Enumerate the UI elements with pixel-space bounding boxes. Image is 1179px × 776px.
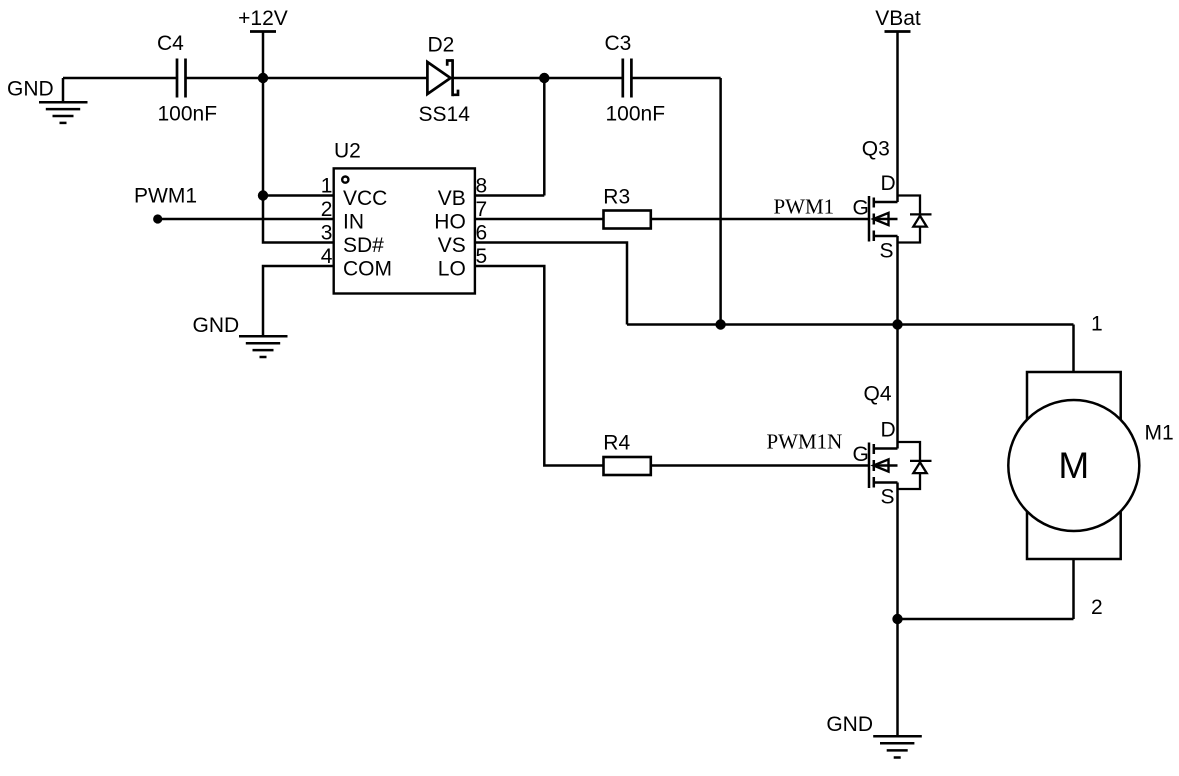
svg-text:VCC: VCC: [343, 187, 387, 210]
svg-text:G: G: [853, 197, 869, 220]
svg-text:PWM1: PWM1: [134, 184, 197, 207]
resistor R4: [604, 457, 651, 475]
wire pin1 VCC: [263, 194, 334, 197]
transistor Q3: [869, 196, 898, 242]
node C3 leg junction: [715, 319, 725, 329]
IC U2 body: [334, 168, 475, 293]
svg-text:4: 4: [321, 245, 333, 268]
capacitor C3: [623, 59, 632, 98]
node D2/C3/VB junction: [539, 73, 549, 83]
wire junction to D2 anode: [263, 77, 427, 80]
svg-text:S: S: [880, 240, 894, 263]
svg-text:VS: VS: [438, 234, 466, 257]
ground (U2 COM): [239, 336, 288, 357]
svg-text:D: D: [881, 172, 896, 195]
wire pin5 LO to R4: [475, 266, 603, 466]
wire switch node row: [627, 323, 1074, 326]
motor M1: [1008, 372, 1139, 559]
wire C3 to corner: [631, 77, 720, 80]
svg-text:GND: GND: [826, 713, 873, 736]
wire VB riser: [543, 78, 546, 196]
svg-text:COM: COM: [343, 258, 392, 281]
svg-text:R4: R4: [603, 431, 630, 454]
svg-text:VB: VB: [438, 187, 466, 210]
svg-text:1: 1: [1091, 313, 1103, 336]
ground (top-left): [39, 78, 88, 123]
svg-text:S: S: [881, 486, 895, 509]
node Q3 source junction: [892, 319, 902, 329]
svg-text:R3: R3: [603, 185, 630, 208]
ground (bottom): [873, 736, 922, 757]
wire pin8 VB: [475, 194, 545, 197]
wire pin6 VS to switch node: [475, 243, 627, 325]
net PWM1 input dot: [153, 214, 162, 223]
svg-text:SD#: SD#: [343, 234, 384, 257]
wire Q4 source down to bottom node: [896, 483, 899, 620]
resistor R3: [604, 211, 651, 229]
wire pin2 IN: [158, 218, 334, 221]
node +12V/C4/D2 junction: [258, 73, 268, 83]
svg-text:M: M: [1058, 445, 1089, 486]
wire switch node to motor pin 1: [1072, 325, 1075, 373]
svg-text:GND: GND: [7, 78, 54, 101]
power +12V: [250, 32, 276, 79]
transistor Q4: [869, 443, 898, 489]
svg-text:HO: HO: [434, 211, 466, 234]
svg-text:7: 7: [476, 198, 488, 221]
svg-text:PWM1N: PWM1N: [767, 430, 843, 454]
power VBat: [885, 32, 911, 203]
U2 pin1 marker: [342, 177, 348, 183]
svg-text:M1: M1: [1145, 422, 1174, 445]
wire R3 to Q3 gate: [651, 218, 870, 221]
svg-text:100nF: 100nF: [606, 103, 666, 126]
svg-text:3: 3: [321, 221, 333, 244]
Q4 body diode: [898, 442, 932, 489]
node bottom junction: [892, 614, 902, 624]
svg-text:1: 1: [321, 174, 333, 197]
svg-text:2: 2: [321, 198, 333, 221]
wire pin4 COM to ground: [263, 266, 334, 336]
diode D2 (Schottky): [427, 59, 458, 96]
node VCC tap: [258, 190, 268, 200]
wire corner down to switch node: [719, 78, 722, 325]
svg-text:Q3: Q3: [862, 138, 890, 161]
svg-text:100nF: 100nF: [158, 102, 218, 125]
Q3 body diode: [898, 196, 932, 243]
svg-text:D: D: [881, 419, 896, 442]
svg-text:GND: GND: [193, 314, 240, 337]
wire GND to C4: [63, 77, 176, 80]
svg-text:VBat: VBat: [875, 7, 921, 30]
svg-text:6: 6: [476, 221, 488, 244]
svg-text:C3: C3: [605, 32, 632, 55]
wire C4 to +12V junction: [186, 77, 264, 80]
svg-text:+12V: +12V: [238, 7, 288, 30]
svg-text:D2: D2: [428, 34, 455, 57]
svg-text:2: 2: [1091, 596, 1103, 619]
svg-text:Q4: Q4: [864, 383, 892, 406]
wire motor pin 2 down: [1072, 559, 1075, 619]
svg-text:SS14: SS14: [419, 103, 471, 126]
svg-text:8: 8: [476, 174, 488, 197]
wire pin7 HO to R3: [475, 218, 603, 221]
svg-text:G: G: [853, 443, 869, 466]
svg-text:C4: C4: [157, 32, 184, 55]
svg-text:PWM1: PWM1: [774, 195, 835, 219]
svg-text:LO: LO: [438, 258, 466, 281]
wire D2 cathode to C3: [453, 77, 623, 80]
capacitor C4: [177, 59, 186, 98]
wire Q3 source to switch node: [896, 236, 899, 325]
wire Q4 drain riser: [896, 325, 899, 449]
svg-text:IN: IN: [343, 211, 364, 234]
svg-text:U2: U2: [334, 140, 361, 163]
wire R4 to Q4 gate: [651, 464, 870, 467]
wire bottom row: [898, 618, 1074, 621]
wire +12V riser to pin1/pin3: [263, 78, 334, 243]
svg-text:5: 5: [476, 245, 488, 268]
wire bottom node to ground: [896, 619, 899, 736]
